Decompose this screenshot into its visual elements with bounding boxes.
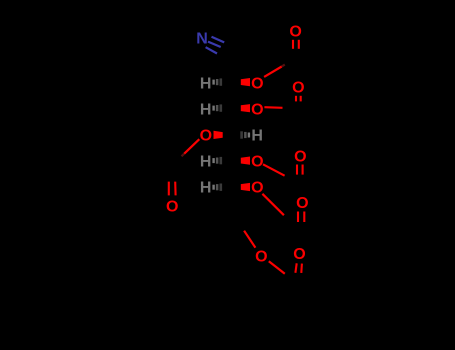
bond N1#C1 triple bond (blue halves) (206, 37, 225, 54)
bond O-C(=O) (red half, to left acetyl) (184, 139, 199, 154)
svg-text:O: O (289, 24, 301, 41)
svg-text:O: O (294, 149, 306, 166)
bond C=O double (acetyl E) (298, 212, 304, 223)
bond C=O double (acetyl A) (293, 40, 299, 49)
svg-text:O: O (251, 153, 263, 170)
bond C=O double (acetyl D) (297, 165, 303, 175)
bond C5-H hashed wedge (212, 157, 222, 164)
svg-text:H: H (251, 127, 263, 144)
bond C7H2-O (red half) (244, 231, 255, 248)
svg-text:O: O (292, 80, 304, 97)
bond C4-O solid wedge (red half, mirrored) (214, 131, 223, 139)
bond C3-O solid wedge (red half) (241, 104, 250, 112)
svg-text:H: H (200, 180, 212, 197)
bond C3-H hashed wedge (212, 104, 222, 111)
bond C4-H hashed wedge (240, 131, 250, 138)
bond O-C(=O) (red half, horizontal) (264, 106, 282, 109)
svg-text:O: O (296, 195, 308, 212)
bond O-C(=O) (red half) (263, 164, 285, 175)
svg-text:H: H (200, 153, 212, 170)
bond C=O double (acetyl F) (295, 263, 302, 273)
bond C=O double (acetyl C, pointing down) (169, 182, 176, 196)
bond C6-O solid wedge (red half) (241, 183, 250, 191)
svg-text:H: H (200, 76, 212, 93)
bond O-C(=O) (red half) (264, 67, 282, 77)
svg-text:O: O (166, 199, 178, 216)
svg-text:N: N (196, 30, 208, 47)
svg-text:O: O (251, 76, 263, 93)
bond C6-H hashed wedge (212, 184, 222, 191)
svg-text:O: O (251, 180, 263, 197)
bond C5-O solid wedge (red half) (241, 157, 250, 165)
svg-text:O: O (293, 246, 305, 263)
bond C2-H hashed wedge (212, 78, 222, 85)
svg-text:O: O (200, 127, 212, 144)
bond O-C(=O) (red half) (262, 194, 284, 215)
bond C2-O solid wedge (red half) (241, 78, 250, 86)
svg-text:H: H (200, 101, 212, 118)
bond O-C(=O) (red half) (269, 261, 285, 273)
svg-text:O: O (251, 101, 263, 118)
bond C=O double (acetyl B) (296, 96, 301, 102)
svg-text:O: O (255, 249, 267, 266)
